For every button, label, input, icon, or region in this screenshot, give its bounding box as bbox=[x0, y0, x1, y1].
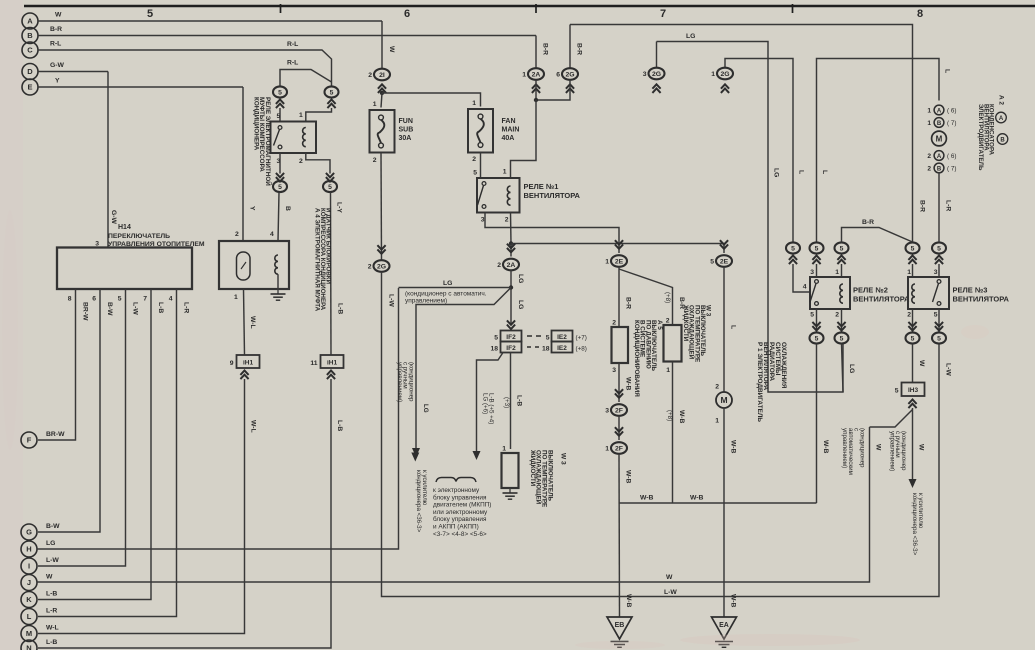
connector iH1 pin9 bbox=[237, 355, 260, 368]
label manual AC note2 bbox=[888, 431, 907, 471]
svg-text:B-R: B-R bbox=[862, 219, 874, 226]
svg-text:B-W: B-W bbox=[46, 523, 60, 530]
wire label L-W bbox=[132, 302, 139, 315]
wire label L-R bbox=[945, 200, 952, 211]
wire B-R top to relay3 bbox=[570, 25, 913, 243]
svg-text:LG: LG bbox=[686, 33, 695, 40]
svg-text:или электронному: или электронному bbox=[433, 509, 488, 516]
svg-text:2: 2 bbox=[368, 264, 372, 271]
connector 2G pin 6 oval bbox=[562, 68, 578, 80]
node N terminal circle bbox=[21, 640, 37, 650]
svg-text:L-R: L-R bbox=[183, 302, 190, 313]
svg-text:B-R: B-R bbox=[919, 200, 926, 212]
svg-text:IH3: IH3 bbox=[908, 387, 919, 394]
svg-text:E: E bbox=[27, 83, 32, 92]
wire to 2A-2 bbox=[510, 244, 512, 257]
label A2 connector codes bbox=[998, 95, 1005, 105]
svg-text:W-B: W-B bbox=[678, 410, 685, 424]
arrow into 2G bbox=[377, 249, 385, 253]
wire relay1 pin3 to 2E-1 bbox=[485, 213, 619, 254]
fuse FUN SUB 30A box bbox=[370, 110, 395, 153]
label circle A code bbox=[996, 112, 1007, 123]
connector 5 oval (clutch relay pin5 top) bbox=[273, 86, 287, 97]
svg-text:1: 1 bbox=[927, 108, 931, 115]
wire IF2-18 to temp switch bbox=[510, 353, 512, 450]
svg-text:ВЕНТИЛЯТОРА: ВЕНТИЛЯТОРА bbox=[853, 295, 910, 304]
svg-text:4: 4 bbox=[270, 231, 274, 238]
svg-text:(+3): (+3) bbox=[503, 397, 510, 408]
wire 2A down bbox=[535, 80, 537, 100]
wire label W vertical bbox=[388, 46, 395, 53]
motor condenser terminal B2 bbox=[934, 163, 944, 173]
svg-text:L-B: L-B bbox=[337, 303, 344, 314]
wire relay1 pin2 down bbox=[510, 213, 513, 244]
svg-text:B-R: B-R bbox=[576, 43, 583, 55]
wire label LG r2 bbox=[848, 364, 855, 373]
svg-text:J: J bbox=[27, 578, 31, 587]
svg-text:1: 1 bbox=[299, 112, 303, 119]
wire oval to relay2 pin1 bbox=[841, 264, 843, 277]
node D terminal circle bbox=[22, 64, 38, 80]
wire Y from node E bbox=[38, 86, 243, 88]
component temp switch W3b box bbox=[664, 325, 682, 362]
wire L right segment bbox=[817, 59, 940, 243]
svg-text:R-L: R-L bbox=[287, 41, 298, 48]
node K terminal circle bbox=[21, 592, 37, 608]
wire label W manual bbox=[918, 444, 925, 451]
svg-text:W-B: W-B bbox=[625, 594, 632, 608]
wire LG manual branch bbox=[416, 288, 511, 449]
svg-text:W-B: W-B bbox=[730, 594, 737, 608]
wire label B-R at 2G6 bbox=[576, 43, 583, 55]
arrow into iH1-9 bbox=[240, 371, 248, 375]
wire L from 2G-1 bbox=[725, 59, 793, 243]
svg-text:РЕЛЕ №3: РЕЛЕ №3 bbox=[953, 286, 988, 295]
node B terminal circle bbox=[22, 28, 38, 44]
svg-text:L-B: L-B bbox=[46, 639, 57, 646]
wire 2G-6 to top line bbox=[569, 25, 571, 69]
connector 2G pin 3 oval bbox=[649, 68, 665, 80]
wire IF2 branch to ECU bbox=[477, 353, 504, 452]
svg-text:(+7): (+7) bbox=[576, 335, 587, 342]
wire 2F-1 down to ground EB bbox=[618, 454, 621, 617]
svg-text:LG: LG bbox=[848, 364, 855, 373]
svg-text:1: 1 bbox=[711, 71, 715, 78]
relay R2 fan box bbox=[810, 277, 850, 309]
svg-text:30A: 30A bbox=[399, 135, 412, 142]
svg-text:4: 4 bbox=[169, 296, 173, 303]
wire W-L iH1-9 down to node M bbox=[38, 379, 245, 634]
svg-text:( 6): ( 6) bbox=[947, 108, 956, 115]
svg-text:ПЕРЕКЛЮЧАТЕЛЬ: ПЕРЕКЛЮЧАТЕЛЬ bbox=[108, 233, 170, 240]
wire BR-W heater pin 8 bbox=[38, 289, 76, 440]
svg-text:H: H bbox=[26, 545, 31, 554]
label R1 motor bbox=[756, 342, 787, 422]
svg-text:1: 1 bbox=[605, 259, 609, 266]
wire G-W from node D bbox=[38, 71, 108, 73]
svg-text:5: 5 bbox=[546, 335, 550, 342]
svg-text:B-R: B-R bbox=[625, 297, 632, 309]
svg-text:2A: 2A bbox=[532, 71, 541, 78]
arrow into bottom oval 3 bbox=[908, 326, 916, 330]
wire label (+3) bbox=[503, 397, 510, 408]
svg-text:A: A bbox=[937, 154, 942, 160]
wire label W-L lower bbox=[250, 420, 257, 433]
svg-text:1: 1 bbox=[715, 418, 719, 425]
wire label L-W v bbox=[388, 294, 395, 307]
svg-text:5: 5 bbox=[895, 388, 899, 395]
svg-text:L: L bbox=[944, 69, 951, 73]
wire label L v2 bbox=[821, 170, 828, 174]
wire label L v1 bbox=[798, 170, 805, 174]
wire relay pin2 to oval bbox=[306, 153, 330, 174]
svg-text:iH1: iH1 bbox=[327, 360, 338, 367]
wire label W-B 4 bbox=[730, 440, 737, 454]
grid tick bbox=[280, 4, 282, 13]
wire label B-R bbox=[625, 297, 632, 309]
arrow into iH1-11 bbox=[327, 371, 335, 375]
arrow into oval pin5 bbox=[276, 100, 284, 104]
wire label LG small bbox=[422, 404, 429, 413]
svg-text:5: 5 bbox=[147, 8, 153, 20]
node I terminal circle bbox=[21, 558, 37, 574]
arrow into IF2 bbox=[507, 325, 515, 329]
wire label L-B bbox=[157, 302, 164, 313]
wire W relay3 pin2 to IH3 bbox=[912, 344, 914, 383]
svg-text:W-B: W-B bbox=[625, 470, 632, 484]
svg-text:2: 2 bbox=[235, 231, 239, 238]
wire B-R from node B bbox=[38, 35, 536, 37]
svg-text:W 3: W 3 bbox=[560, 453, 567, 465]
connector 5 oval bottom 3 bbox=[906, 332, 920, 343]
connector 5 oval top 1 bbox=[786, 242, 800, 253]
svg-text:5: 5 bbox=[473, 170, 477, 177]
motor condenser terminal A3 bbox=[934, 151, 944, 161]
arrow into 2E bbox=[720, 244, 728, 248]
svg-text:SUB: SUB bbox=[399, 127, 414, 134]
svg-text:2A: 2A bbox=[507, 262, 516, 269]
wire 2E-1 diagonal bbox=[619, 269, 673, 325]
wire W diagonal to auto branch bbox=[870, 410, 913, 428]
svg-text:L-R: L-R bbox=[945, 200, 952, 211]
svg-text:BR-W: BR-W bbox=[82, 302, 89, 321]
svg-text:1: 1 bbox=[605, 446, 609, 453]
wire label B-W bbox=[106, 302, 113, 316]
svg-text:2: 2 bbox=[907, 312, 911, 319]
svg-text:F: F bbox=[27, 436, 32, 445]
arrow to AC amplifier bbox=[412, 448, 420, 457]
svg-text:A: A bbox=[27, 17, 33, 26]
svg-text:6: 6 bbox=[92, 296, 96, 303]
svg-text:2: 2 bbox=[927, 153, 931, 160]
node F terminal circle bbox=[21, 432, 37, 448]
svg-text:W-L: W-L bbox=[249, 316, 256, 329]
relay2 switch contact bbox=[815, 280, 819, 284]
svg-text:B-R: B-R bbox=[50, 26, 62, 33]
svg-text:W-L: W-L bbox=[46, 625, 59, 632]
connector 5 oval bottom 2 bbox=[835, 332, 849, 343]
label to amplifier 2 bbox=[911, 493, 924, 556]
svg-text:5: 5 bbox=[791, 245, 795, 252]
svg-text:I: I bbox=[28, 562, 30, 571]
svg-text:2: 2 bbox=[368, 72, 372, 79]
arrow into oval 4 bbox=[908, 256, 916, 260]
svg-text:2G: 2G bbox=[377, 263, 386, 270]
svg-text:3: 3 bbox=[605, 408, 609, 415]
svg-text:A: A bbox=[999, 116, 1004, 122]
svg-text:L-W: L-W bbox=[46, 557, 59, 564]
wire label L-R bbox=[183, 302, 190, 313]
wire LG from 2A-2 bbox=[510, 270, 512, 325]
connector 5 oval top 2 bbox=[810, 242, 824, 253]
svg-text:5: 5 bbox=[710, 259, 714, 266]
wire motor to ground EA bbox=[723, 408, 725, 617]
svg-text:L-W: L-W bbox=[388, 294, 395, 307]
arrow to ECU bbox=[473, 451, 481, 460]
svg-text:(+8): (+8) bbox=[664, 292, 671, 303]
svg-text:ВЕНТИЛЯТОРА: ВЕНТИЛЯТОРА bbox=[953, 295, 1010, 304]
wire L-R heater pin 4 bbox=[38, 289, 177, 617]
wire label L v3 bbox=[944, 69, 951, 73]
svg-text:B: B bbox=[27, 31, 33, 40]
relay2 coil bbox=[840, 284, 843, 303]
svg-text:N: N bbox=[26, 644, 31, 650]
wire label W-B 2 bbox=[625, 470, 632, 484]
arrow into 2A bbox=[507, 248, 515, 252]
svg-text:W-B: W-B bbox=[640, 495, 654, 502]
dashes IF2-IE2 top bbox=[527, 335, 545, 337]
connector IE2 pin18 box bbox=[552, 342, 573, 353]
svg-text:1: 1 bbox=[234, 294, 238, 301]
svg-text:1: 1 bbox=[666, 367, 670, 374]
svg-text:W: W bbox=[918, 444, 925, 451]
wire W from node J bbox=[37, 427, 870, 582]
wire B-R to relay1 pin1 bbox=[511, 100, 537, 178]
dashes IF2-IE2 bottom bbox=[527, 346, 543, 348]
wire label L-B(+5+4) LG(+6) bbox=[482, 393, 495, 424]
arrow into oval 3 bbox=[837, 256, 845, 260]
svg-text:W-B: W-B bbox=[730, 440, 737, 454]
svg-text:IE2: IE2 bbox=[557, 334, 567, 341]
component heater control switch box bbox=[57, 248, 192, 290]
arrow into 2G bbox=[652, 84, 660, 88]
label circle B code bbox=[997, 134, 1008, 145]
connector 5 oval (clutch relay pin3 bottom) bbox=[273, 181, 287, 192]
svg-text:W: W bbox=[875, 444, 882, 451]
svg-text:IE2: IE2 bbox=[557, 345, 567, 352]
wire LG branch to node H line bbox=[399, 287, 512, 289]
svg-text:2F: 2F bbox=[615, 445, 623, 452]
svg-text:L-W: L-W bbox=[945, 363, 952, 376]
svg-text:L-R: L-R bbox=[46, 608, 57, 615]
arrow into oval pin2-out bbox=[326, 177, 334, 181]
svg-text:2: 2 bbox=[612, 320, 616, 327]
svg-text:5: 5 bbox=[815, 245, 819, 252]
wire L-W heater pin 5 bbox=[38, 289, 126, 566]
relay3 switch contact bbox=[937, 280, 941, 284]
svg-text:18: 18 bbox=[490, 346, 498, 353]
wire FUN SUB to 2G-2 bbox=[380, 153, 383, 261]
connector 2F pin1 oval bbox=[611, 442, 627, 454]
svg-text:W: W bbox=[55, 12, 62, 19]
label W3 id bbox=[560, 453, 567, 465]
wire 2G-3 stub bbox=[656, 42, 658, 68]
svg-text:18: 18 bbox=[542, 346, 550, 353]
svg-text:LG: LG bbox=[443, 280, 452, 287]
motor R1 radiator fan bbox=[716, 392, 732, 408]
svg-text:5: 5 bbox=[840, 335, 844, 342]
ground EB bbox=[607, 617, 632, 639]
connector 5 oval bottom 4 bbox=[932, 332, 946, 343]
arrow into oval pin1 bbox=[327, 100, 335, 104]
motor A2 condenser fan bbox=[932, 131, 947, 146]
wire relay2 pin5 down bbox=[816, 309, 818, 332]
wire oval to relay3 pin3 bbox=[938, 264, 940, 277]
thermal protector capsule bbox=[237, 252, 251, 280]
svg-text:G: G bbox=[26, 528, 32, 537]
wire label L-B bbox=[516, 395, 523, 406]
wire label G-W vertical bbox=[110, 210, 117, 225]
svg-text:( 6): ( 6) bbox=[947, 153, 956, 160]
wire W-B relay2 pin5 to bus bbox=[816, 344, 818, 503]
svg-text:5: 5 bbox=[494, 335, 498, 342]
connector 5 oval top 4 bbox=[906, 242, 920, 253]
wire label LG below bbox=[517, 300, 524, 309]
svg-text:2G: 2G bbox=[720, 71, 729, 78]
wire label (+8) bbox=[664, 292, 671, 303]
svg-text:2: 2 bbox=[927, 166, 931, 173]
wire 2E-1 to pressure switch bbox=[618, 267, 620, 327]
svg-text:2: 2 bbox=[299, 158, 303, 165]
label condenser motor bbox=[977, 104, 994, 171]
svg-text:3: 3 bbox=[643, 71, 647, 78]
connector 2A pin 2 oval bbox=[503, 259, 519, 271]
svg-text:3: 3 bbox=[612, 367, 616, 374]
relay3 coil bbox=[912, 284, 915, 303]
svg-text:L-B: L-B bbox=[46, 591, 57, 598]
svg-text:H14: H14 bbox=[118, 224, 131, 231]
grid tick bbox=[792, 4, 794, 13]
svg-text:1: 1 bbox=[522, 72, 526, 79]
wire L-B iH1-11 down to node N bbox=[38, 379, 331, 648]
svg-text:W: W bbox=[388, 46, 395, 53]
svg-text:EA: EA bbox=[719, 622, 729, 629]
wire label B-R near 2A bbox=[542, 43, 549, 55]
svg-text:LG: LG bbox=[46, 540, 55, 547]
wire W-B bus bbox=[619, 502, 817, 504]
wire label W-B bbox=[625, 377, 632, 391]
svg-text:2: 2 bbox=[472, 156, 476, 163]
svg-text:IF2: IF2 bbox=[506, 334, 516, 341]
wire B-R branch relay2 pin1 bbox=[842, 228, 913, 243]
svg-text:B-R: B-R bbox=[542, 43, 549, 55]
svg-text:LG: LG bbox=[422, 404, 429, 413]
wire label B-R 2 bbox=[678, 297, 685, 309]
wire label BR-W bbox=[82, 302, 89, 321]
svg-text:A: A bbox=[937, 109, 942, 115]
svg-text:11: 11 bbox=[310, 360, 317, 367]
svg-text:3: 3 bbox=[481, 217, 485, 224]
wire 2I down to junction bbox=[381, 92, 383, 94]
svg-text:(кондиционер с автоматич.: (кондиционер с автоматич. bbox=[405, 291, 487, 298]
connector iH1 pin11 bbox=[321, 355, 344, 368]
svg-text:управлением): управлением) bbox=[405, 298, 447, 305]
arrow into IH3 bbox=[908, 400, 916, 404]
wire label L-B upper bbox=[337, 303, 344, 314]
svg-text:8: 8 bbox=[68, 296, 72, 303]
svg-text:8: 8 bbox=[917, 8, 923, 20]
wire 2I to FUN SUB bbox=[381, 93, 382, 108]
connector 2A pin 1 oval bbox=[528, 68, 544, 80]
wire L-Y to iH1-11 bbox=[330, 192, 333, 355]
svg-text:L-Y: L-Y bbox=[336, 202, 343, 213]
svg-text:7: 7 bbox=[660, 8, 666, 20]
svg-text:L-W: L-W bbox=[664, 589, 677, 596]
wire pressure sw to 2F-3 bbox=[618, 363, 620, 402]
svg-text:R-L: R-L bbox=[287, 60, 298, 67]
wire coil to ground bbox=[277, 274, 279, 289]
svg-text:BR-W: BR-W bbox=[46, 431, 65, 438]
wire 2G6 down bbox=[536, 80, 570, 100]
clutch relay coil bbox=[303, 128, 306, 147]
relay clutch box bbox=[271, 122, 317, 154]
svg-text:А 2: А 2 bbox=[998, 95, 1005, 105]
svg-text:LG: LG bbox=[773, 168, 780, 177]
svg-text:2: 2 bbox=[835, 312, 839, 319]
svg-text:1: 1 bbox=[472, 100, 476, 107]
svg-text:B: B bbox=[937, 167, 942, 173]
svg-text:2: 2 bbox=[373, 157, 377, 164]
connector 5 oval (clutch relay pin1 top) bbox=[325, 86, 339, 97]
svg-text:W-B: W-B bbox=[690, 495, 704, 502]
svg-text:5: 5 bbox=[937, 245, 941, 252]
svg-text:iH1: iH1 bbox=[243, 360, 254, 367]
svg-text:5: 5 bbox=[118, 296, 122, 303]
svg-text:40A: 40A bbox=[502, 135, 515, 142]
fuse FAN MAIN 40A box bbox=[468, 109, 493, 153]
wire label (+8) b bbox=[666, 410, 673, 421]
connector 2E pin 1 oval bbox=[611, 255, 627, 267]
wire B to clutch coil pin4 bbox=[278, 192, 279, 241]
wire label L-B lower bbox=[336, 420, 343, 431]
connector IF2 pin5 box bbox=[501, 331, 522, 342]
wire IH3 down split bbox=[912, 408, 914, 479]
svg-text:D: D bbox=[27, 67, 33, 76]
wire 2F3 to 2F1 bbox=[618, 416, 620, 440]
svg-text:R-L: R-L bbox=[50, 41, 61, 48]
node A terminal circle bbox=[22, 13, 38, 29]
node J terminal circle bbox=[21, 575, 37, 591]
svg-text:1: 1 bbox=[927, 120, 931, 127]
svg-text:9: 9 bbox=[230, 360, 234, 367]
arrow into 2F-1 bbox=[615, 431, 623, 435]
label W3b temp switch bbox=[682, 304, 711, 362]
svg-text:L-W: L-W bbox=[132, 302, 139, 315]
svg-text:( 7): ( 7) bbox=[947, 120, 956, 127]
svg-text:7: 7 bbox=[143, 296, 147, 303]
junction dot W fuses bbox=[380, 91, 384, 95]
svg-text:L-B: L-B bbox=[336, 420, 343, 431]
svg-text:5: 5 bbox=[330, 89, 334, 96]
wire LG top bbox=[657, 42, 844, 393]
svg-text:EB: EB bbox=[615, 622, 625, 629]
connector 5 oval top 5 bbox=[932, 242, 946, 253]
svg-text:4: 4 bbox=[803, 284, 807, 291]
svg-text:B: B bbox=[937, 121, 942, 127]
wire label W-B 3 bbox=[678, 410, 685, 424]
clutch coil bbox=[275, 255, 278, 274]
svg-text:3: 3 bbox=[810, 269, 814, 276]
